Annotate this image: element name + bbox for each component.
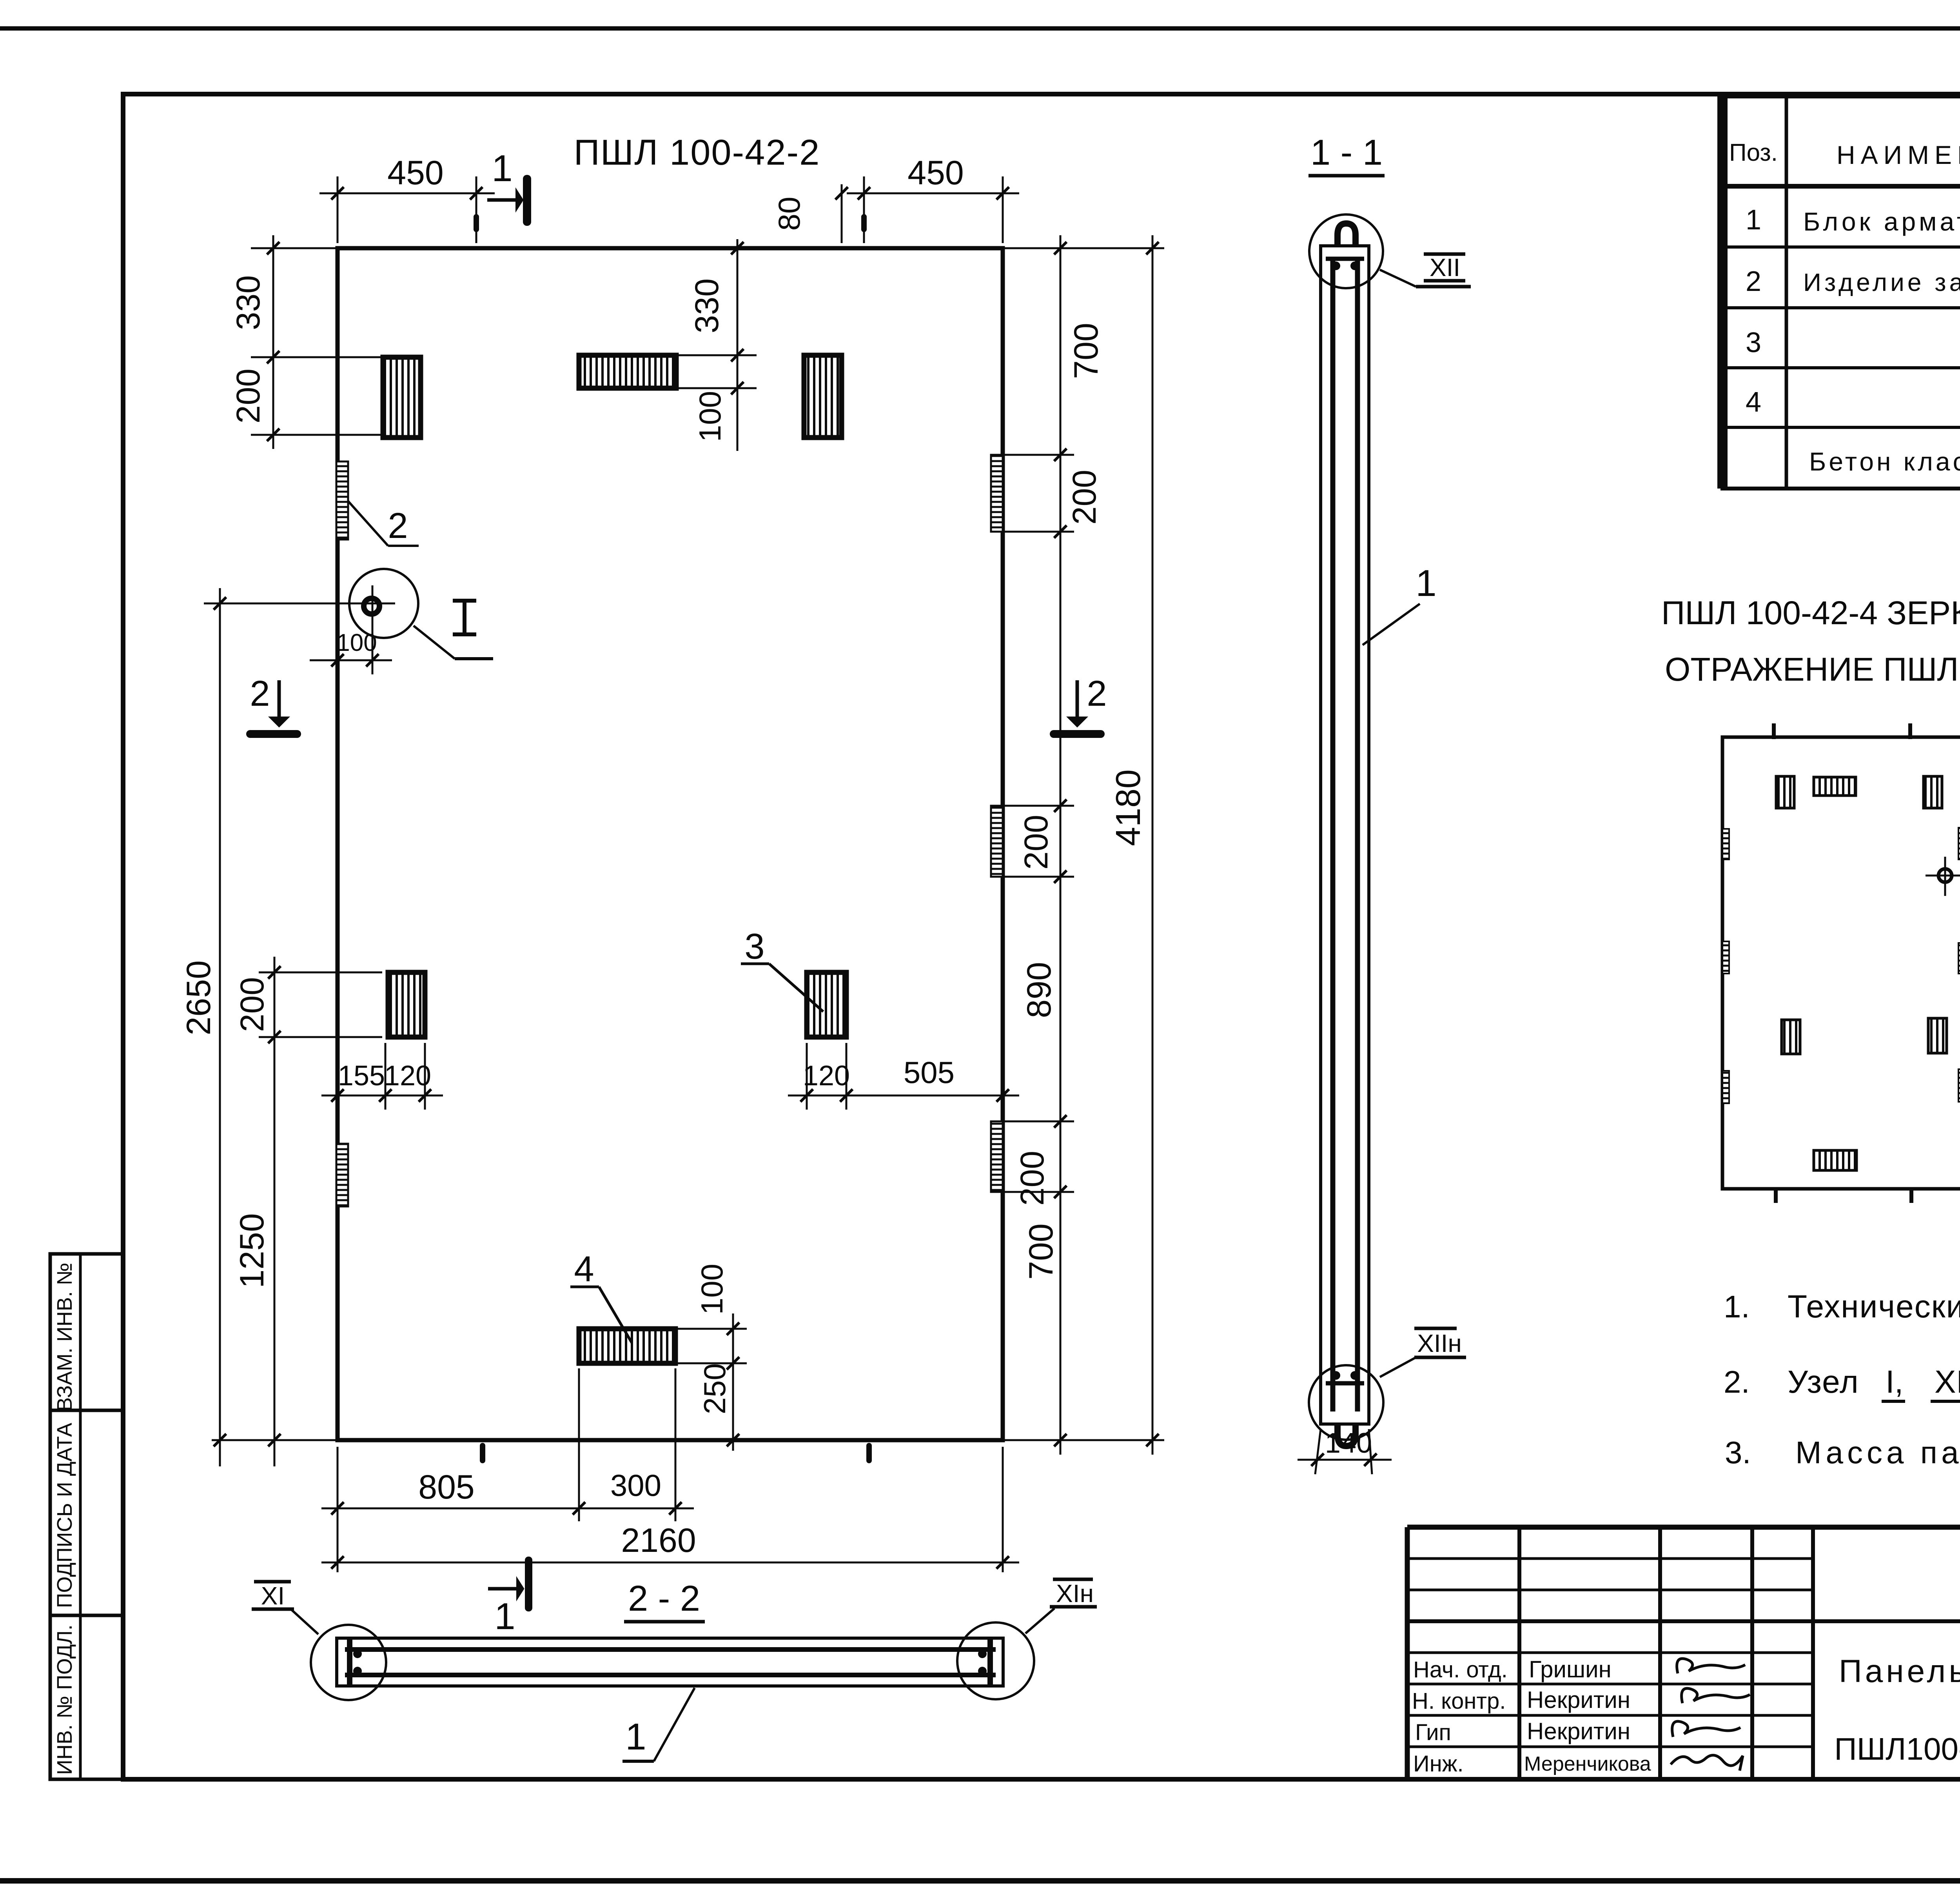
section 2-2 title <box>624 1579 705 1622</box>
svg-text:I,: I, <box>1886 1364 1904 1400</box>
svg-text:Меренчикова: Меренчикова <box>1524 1753 1651 1775</box>
section 1-1 bar <box>1321 246 1369 1424</box>
svg-text:120: 120 <box>803 1060 850 1092</box>
section 2-2 right anchor <box>978 1640 990 1685</box>
signer row 2 <box>1412 1687 1750 1714</box>
svg-text:100: 100 <box>693 391 727 442</box>
edge plate right middle <box>991 806 1003 877</box>
svg-text:ПШЛ100-42-2; ПШЛ100-42-4: ПШЛ100-42-2; ПШЛ100-42-4 <box>1834 1731 1960 1766</box>
right chain 700/200/200/890/200/700 <box>1003 235 1164 1455</box>
section mark 2 right <box>1050 674 1107 738</box>
top dim 450 left <box>319 154 495 243</box>
mirror edge plates left <box>1722 829 1729 1103</box>
mirror plate top-middle <box>1814 777 1856 796</box>
mirror plate bottom <box>1814 1150 1857 1170</box>
table row 5 concrete <box>1809 446 1960 476</box>
svg-text:XIн: XIн <box>1056 1579 1094 1608</box>
edge plate right lower <box>991 1121 1003 1192</box>
section 1-1 bottom anchor <box>1326 1371 1364 1446</box>
svg-text:505: 505 <box>904 1055 955 1090</box>
svg-text:450: 450 <box>387 154 444 192</box>
mirror edge plates right <box>1958 828 1960 1102</box>
label 1 leader section 1-1 <box>1363 562 1437 645</box>
svg-text:3.: 3. <box>1725 1435 1751 1470</box>
mirror plate top-left <box>1776 776 1794 808</box>
svg-text:200: 200 <box>1018 815 1054 870</box>
svg-text:XII: XII <box>1430 253 1460 282</box>
dim 140 <box>1298 1428 1392 1474</box>
svg-text:1: 1 <box>494 1595 515 1637</box>
svg-text:4180: 4180 <box>1109 769 1147 846</box>
svg-text:Инж.: Инж. <box>1413 1751 1464 1777</box>
svg-text:450: 450 <box>907 154 964 192</box>
label 1 section 2-2 <box>622 1688 695 1761</box>
svg-text:2: 2 <box>1087 674 1107 714</box>
svg-text:1 - 1: 1 - 1 <box>1310 133 1383 173</box>
table row 3 <box>1746 325 1960 358</box>
section 1-1 top node circle <box>1309 214 1383 288</box>
svg-text:Гип: Гип <box>1415 1720 1451 1745</box>
embedded plate 3 mid-right <box>807 972 846 1037</box>
section 2-2 bar <box>337 1638 1003 1686</box>
embedded plate 4 bottom <box>579 1329 675 1363</box>
svg-text:ИНВ. № ПОДЛ.: ИНВ. № ПОДЛ. <box>53 1624 76 1775</box>
svg-text:Н. контр.: Н. контр. <box>1412 1688 1506 1714</box>
specification table <box>1722 94 1960 489</box>
bottom dim 805/300 <box>321 1368 694 1572</box>
svg-text:4: 4 <box>574 1249 594 1289</box>
svg-text:1.: 1. <box>1724 1289 1750 1324</box>
svg-text:2: 2 <box>388 506 408 546</box>
node circle XIн right <box>957 1622 1034 1699</box>
svg-text:Бетон класса В15, м³: Бетон класса В15, м³ <box>1809 447 1960 476</box>
chain 1250/200 <box>212 957 382 1466</box>
label 2 leader <box>348 501 419 546</box>
section 2-2 left anchor <box>350 1640 362 1685</box>
title block grid <box>1407 1527 1960 1779</box>
middle chain 330/100 <box>676 239 757 451</box>
svg-text:2650: 2650 <box>180 960 218 1035</box>
section mark 2 left <box>246 674 301 738</box>
svg-text:XI: XI <box>261 1582 285 1610</box>
svg-text:Некритин: Некритин <box>1527 1687 1630 1713</box>
svg-text:2: 2 <box>250 674 270 714</box>
svg-text:200: 200 <box>1066 470 1103 525</box>
mirror note line 1 <box>1661 594 1960 631</box>
svg-text:2.: 2. <box>1724 1364 1750 1399</box>
svg-text:Поз.: Поз. <box>1729 139 1778 166</box>
chain 4180 <box>1109 235 1159 1455</box>
label XII <box>1380 253 1471 287</box>
svg-text:Нач. отд.: Нач. отд. <box>1413 1657 1508 1682</box>
svg-text:Узел: Узел <box>1788 1364 1859 1400</box>
svg-text:300: 300 <box>610 1468 661 1502</box>
svg-text:330: 330 <box>688 278 725 333</box>
top dim 450 right <box>847 154 1019 243</box>
svg-text:Масса панели 3,16 т.: Масса панели 3,16 т. <box>1795 1435 1960 1470</box>
svg-text:ПШЛ 100-42-2: ПШЛ 100-42-2 <box>574 133 820 173</box>
node I label <box>414 601 493 659</box>
bottom dim 2160 <box>321 1447 1019 1572</box>
edge plate left upper <box>336 461 348 540</box>
embedded plate MN1 top-middle <box>579 355 676 388</box>
svg-text:1: 1 <box>1746 204 1761 236</box>
svg-text:700: 700 <box>1022 1223 1060 1280</box>
table row 1 <box>1746 204 1960 236</box>
mirror note line 2 <box>1665 651 1960 688</box>
svg-text:330: 330 <box>230 275 267 330</box>
svg-text:НАИМЕНОВАНИЕ: НАИМЕНОВАНИЕ <box>1837 140 1960 169</box>
name cell line 1 <box>1839 1653 1960 1689</box>
section mark 1 bottom <box>480 1443 532 1637</box>
label XIн <box>1025 1579 1097 1633</box>
embedded plate mid-left <box>388 972 425 1037</box>
signer row 4 <box>1413 1751 1743 1777</box>
embedded plate MN top-right <box>804 355 842 438</box>
label XI <box>252 1582 318 1634</box>
svg-text:1: 1 <box>1416 562 1436 604</box>
section 1-1 title <box>1308 133 1385 176</box>
svg-text:100: 100 <box>336 629 377 656</box>
svg-text:Блок арматурный БА 18: Блок арматурный БА 18 <box>1803 207 1960 236</box>
table header texts <box>1729 118 1960 182</box>
svg-text:250: 250 <box>697 1363 732 1414</box>
signer row 1 <box>1413 1656 1745 1682</box>
svg-text:ПОДПИСЬ И ДАТА: ПОДПИСЬ И ДАТА <box>53 1423 76 1608</box>
svg-text:XI,: XI, <box>1935 1364 1960 1400</box>
table row 2 <box>1746 265 1960 297</box>
svg-text:805: 805 <box>418 1468 475 1506</box>
svg-text:Панель шахты лифта: Панель шахты лифта <box>1839 1653 1960 1689</box>
svg-text:Некритин: Некритин <box>1527 1718 1630 1744</box>
svg-text:ПШЛ 100-42-4 ЗЕРКАЛЬНОЕ: ПШЛ 100-42-4 ЗЕРКАЛЬНОЕ <box>1661 594 1960 631</box>
left attachment strip <box>50 1254 123 1779</box>
svg-text:1: 1 <box>492 147 512 189</box>
svg-text:Гришин: Гришин <box>1529 1656 1612 1682</box>
mirror anchor crosshair <box>1926 857 1960 896</box>
label XIIн <box>1380 1328 1466 1377</box>
label 4 leader <box>570 1249 632 1343</box>
top dim 80 <box>772 184 848 243</box>
mirror panel outline <box>1722 723 1960 1203</box>
table row 4 <box>1746 386 1960 418</box>
embedded plate MN top-left <box>383 357 421 438</box>
svg-text:XIIн: XIIн <box>1417 1329 1462 1357</box>
signer row 3 <box>1415 1718 1740 1745</box>
dims 120 505 <box>788 1043 1019 1110</box>
mirror plate top-right <box>1924 776 1942 808</box>
svg-text:ОТРАЖЕНИЕ ПШЛ 100-42-2: ОТРАЖЕНИЕ ПШЛ 100-42-2 <box>1665 651 1960 688</box>
svg-text:80: 80 <box>772 197 806 231</box>
top scan bar <box>0 26 1960 31</box>
edge plate left lower <box>336 1144 348 1206</box>
note 1 <box>1724 1289 1960 1324</box>
section mark 1 bottom right tick <box>866 1443 872 1463</box>
svg-text:4: 4 <box>1746 387 1761 418</box>
mirror plate mid-left <box>1782 1020 1800 1054</box>
svg-text:100: 100 <box>695 1264 729 1315</box>
svg-text:ВЗАМ. ИНВ. №: ВЗАМ. ИНВ. № <box>53 1263 76 1412</box>
svg-text:2 - 2: 2 - 2 <box>628 1579 700 1619</box>
name cell line 2 <box>1834 1731 1960 1766</box>
svg-text:140: 140 <box>1325 1428 1372 1459</box>
node circle XI left <box>311 1625 386 1700</box>
chain 2650 <box>180 588 226 1466</box>
svg-text:2160: 2160 <box>621 1522 696 1559</box>
svg-text:200: 200 <box>1014 1151 1051 1206</box>
svg-text:890: 890 <box>1020 962 1058 1018</box>
svg-text:1250: 1250 <box>233 1213 271 1288</box>
note 3 <box>1725 1435 1960 1470</box>
svg-text:120: 120 <box>384 1060 431 1092</box>
dims 155 120 <box>321 1043 443 1110</box>
svg-text:Изделие закладное МН1: Изделие закладное МН1 <box>1803 268 1960 296</box>
section mark 1 top right tick <box>861 214 867 232</box>
svg-text:Технические требования см. 1.0: Технические требования см. 1.089.1-2.1-1… <box>1788 1289 1960 1324</box>
svg-text:200: 200 <box>230 369 267 423</box>
svg-text:3: 3 <box>1746 327 1761 358</box>
panel outline plan <box>338 248 1003 1440</box>
bottom scan bar <box>0 1878 1960 1884</box>
node I circle <box>204 569 418 657</box>
svg-text:3: 3 <box>744 926 764 966</box>
note 2 <box>1724 1364 1960 1401</box>
label 3 leader <box>741 926 823 1012</box>
svg-text:1: 1 <box>625 1716 646 1758</box>
plan view title ПШЛ 100-42-2 <box>574 133 820 173</box>
left chain 330/200 <box>230 235 382 449</box>
svg-text:2: 2 <box>1746 266 1761 297</box>
edge plate right upper <box>991 455 1003 532</box>
mirror plate mid-right <box>1928 1018 1947 1053</box>
svg-text:155: 155 <box>338 1060 385 1092</box>
dim 100 node I <box>310 629 392 674</box>
svg-text:700: 700 <box>1067 323 1105 379</box>
chain 100/250 plate4 <box>676 1264 747 1451</box>
section 1-1 bottom node circle <box>1309 1365 1383 1440</box>
svg-text:200: 200 <box>234 977 270 1032</box>
section mark 1 top <box>474 147 531 232</box>
section 1-1 top lifting loop <box>1326 223 1364 270</box>
